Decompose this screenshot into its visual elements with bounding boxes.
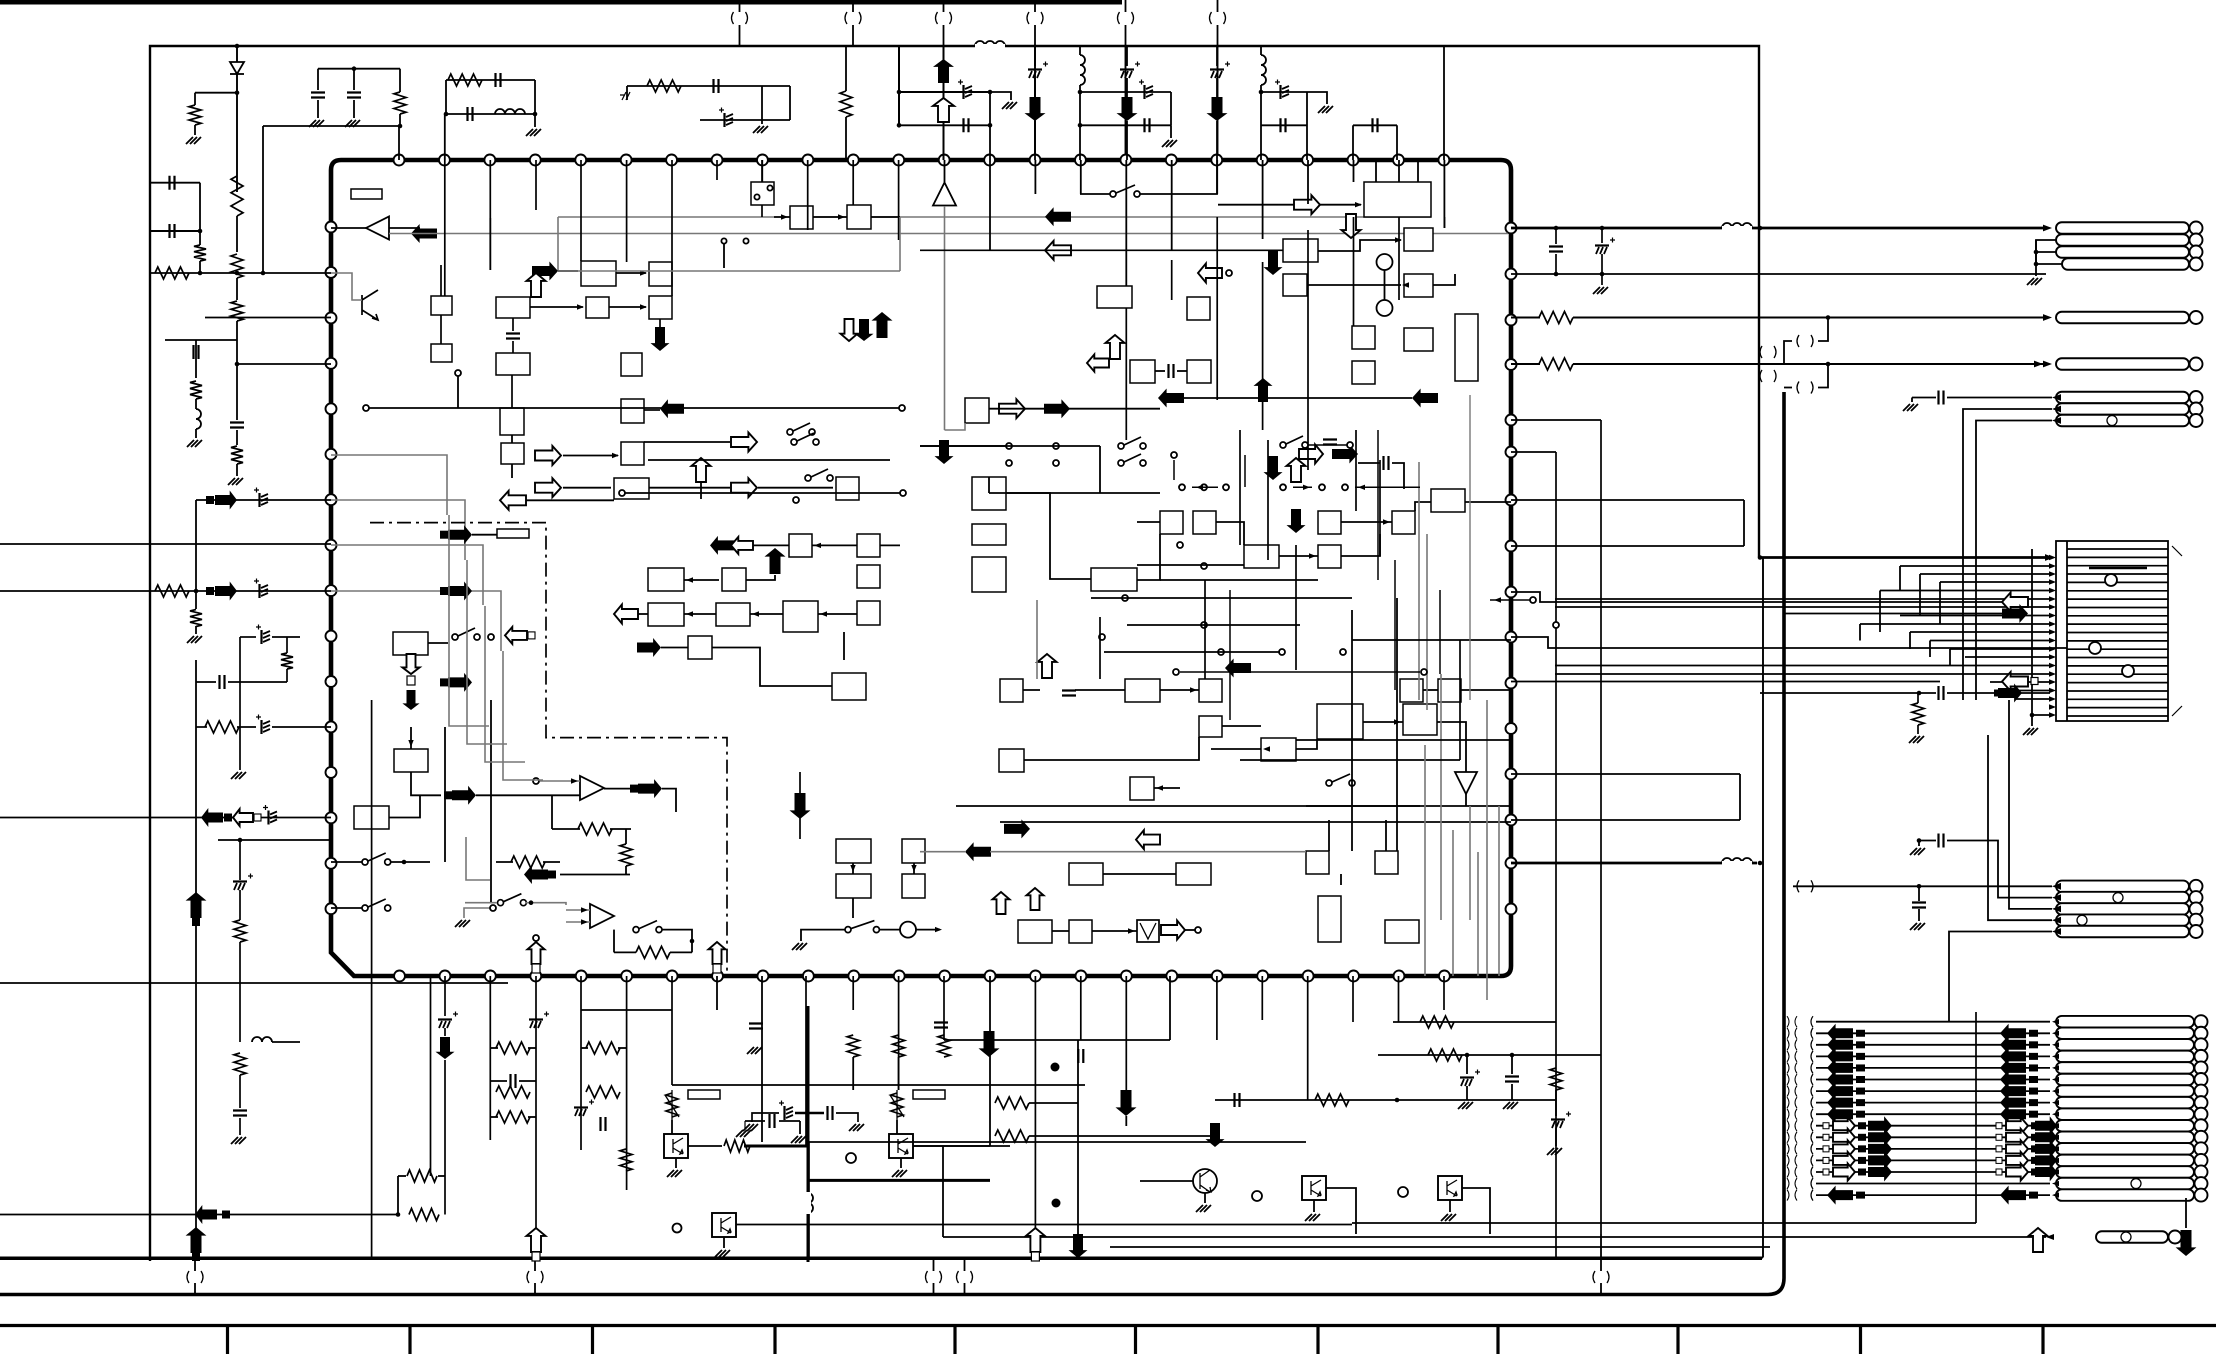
wire (317, 69, 319, 90)
harness wire (1816, 1102, 2050, 1104)
bundle bracket (1787, 1178, 1797, 1189)
top connector wire (852, 25, 854, 46)
capacitor (1939, 391, 1944, 405)
wire (399, 69, 401, 92)
IC pin (757, 971, 768, 982)
wire (1384, 270, 1386, 300)
connector block inner bar (2089, 567, 2147, 569)
top connector wire (852, 0, 854, 12)
IC pin (984, 155, 995, 166)
function block (1364, 182, 1431, 217)
wire (528, 1116, 536, 1118)
wire (1261, 124, 1307, 126)
resistor (234, 920, 246, 942)
ground (455, 920, 470, 927)
contact S43 (1173, 669, 1179, 675)
arrowhead A22 (2049, 621, 2056, 626)
IC pin (1506, 723, 1517, 734)
capacitor (1235, 1093, 1240, 1107)
wire (616, 272, 646, 274)
ground (753, 126, 768, 133)
signal arrow A132 (1087, 354, 1109, 371)
wire (684, 579, 719, 581)
IC pin (1257, 155, 1268, 166)
signal arrow A114 (841, 319, 858, 341)
ground (1162, 140, 1177, 147)
arrow tail box (1856, 1064, 1865, 1071)
wire (1024, 737, 1199, 760)
harness bracket (1811, 1132, 1813, 1143)
wire (758, 487, 833, 489)
signal wire (1511, 363, 2048, 365)
connector P11 (2056, 892, 2189, 904)
IC pin (326, 631, 337, 642)
capacitor (1279, 85, 1281, 99)
contact S35 (1053, 460, 1059, 466)
transistor Q3 (1193, 1169, 1217, 1193)
arrow tail sq (1823, 1146, 1829, 1152)
wire (239, 1118, 241, 1135)
wire (205, 317, 331, 319)
wire (942, 1146, 944, 1237)
signal arrow A97 (1207, 97, 1228, 121)
ground (1002, 102, 1017, 109)
ground (715, 1250, 730, 1257)
wire (489, 218, 491, 270)
junction N3 (2034, 262, 2039, 267)
wire (1140, 1180, 1193, 1182)
connector P10 (2056, 881, 2189, 893)
IC pin (893, 155, 904, 166)
function block (1438, 679, 1461, 702)
arrowhead A39 (2052, 1031, 2059, 1036)
signal arrow A77 (1868, 1128, 1892, 1147)
wire (1398, 976, 1400, 1022)
IC pin (712, 971, 723, 982)
ground (231, 1137, 246, 1144)
wire (1307, 284, 1401, 286)
capacitor (233, 880, 247, 882)
capacitor (170, 224, 175, 238)
signal arrow A129 (1412, 389, 1438, 408)
signal arrow A173 (524, 865, 548, 884)
wire (472, 534, 497, 536)
wire (1222, 725, 1261, 727)
arrow mid box (1858, 1122, 1866, 1129)
wire (799, 818, 801, 839)
wire (286, 669, 288, 682)
pin drop wire (626, 160, 628, 262)
function block (1392, 511, 1415, 534)
wire (933, 1259, 935, 1271)
junction N17 (1078, 123, 1083, 128)
wire (944, 1039, 1170, 1041)
wire (1260, 85, 1262, 160)
signal arrow A82 (2006, 1140, 2028, 1157)
wire (236, 364, 238, 420)
arrowhead A51 (2052, 1169, 2059, 1174)
arrow mid box (2031, 1145, 2039, 1152)
function block (1000, 679, 1023, 702)
arrow tail sq (1823, 1123, 1829, 1129)
arrowhead A32 (2049, 704, 2056, 709)
IC pin (1506, 587, 1517, 598)
wire (540, 780, 580, 782)
wire (1743, 500, 1745, 546)
wire (1034, 46, 1036, 66)
inductor (808, 1193, 813, 1213)
junction dot (1051, 1063, 1060, 1072)
wire (1739, 774, 1741, 820)
wire (625, 866, 627, 875)
supply drop wire (943, 46, 945, 160)
ground (1903, 404, 1918, 411)
wire (1462, 1188, 1490, 1234)
logic block (789, 534, 812, 557)
bus wire (1511, 862, 1757, 865)
connector pin (2056, 1143, 2194, 1155)
wire (1917, 725, 1919, 734)
drop wire (1307, 230, 1309, 470)
feeder wire (1900, 615, 2050, 617)
pin drop wire (898, 160, 900, 240)
arrow tail box (1856, 1030, 1865, 1037)
wire (1029, 1135, 1215, 1137)
pin drop wire (807, 160, 809, 230)
connector pin (2056, 1062, 2194, 1074)
wire (1184, 397, 1412, 399)
arrowhead A26 (2049, 654, 2056, 659)
bundle bracket (1787, 1155, 1797, 1166)
logic block (716, 603, 750, 626)
harness wire (1816, 1055, 2050, 1057)
wire (672, 1084, 1085, 1086)
arrow mid box (2031, 1168, 2039, 1175)
transistor Q1 (664, 1134, 688, 1158)
long wire (1469, 806, 1471, 920)
connector pin (2056, 1166, 2194, 1178)
wire (194, 93, 196, 105)
capacitor (934, 1023, 948, 1028)
IC pin (1506, 447, 1517, 458)
long wire (430, 976, 432, 1176)
wire (263, 125, 400, 127)
long wire (1600, 420, 1602, 1234)
function block (1283, 239, 1318, 262)
wire (1216, 976, 1218, 1040)
ground (667, 1170, 682, 1177)
resistor (620, 1149, 632, 1171)
bus inductor mask (1722, 226, 1752, 230)
wire (625, 829, 627, 844)
wire (1918, 886, 1920, 901)
signal arrow A156 (935, 440, 954, 464)
connector block pin line (2067, 648, 2168, 650)
resistor (407, 1170, 437, 1182)
IC pin (1506, 815, 1517, 826)
wire (813, 216, 847, 218)
connector P14 (2056, 926, 2189, 938)
wire (557, 217, 559, 271)
wire (196, 726, 207, 728)
junction (396, 1212, 401, 1217)
logic block (790, 206, 813, 229)
wire (662, 789, 676, 812)
label box (497, 529, 529, 538)
top inline connector (1027, 12, 1029, 24)
feeder wire (1939, 582, 1941, 624)
logic block (832, 673, 866, 700)
wire (899, 91, 990, 93)
array bus (1975, 1012, 1977, 1223)
label box (913, 1090, 945, 1099)
arrowhead A11 (2052, 906, 2061, 913)
resistor (194, 245, 206, 261)
wire (801, 930, 845, 941)
IC pin (1393, 155, 1404, 166)
contact S12 (1177, 542, 1183, 548)
IC U1 outline (331, 160, 1511, 976)
wire (700, 119, 790, 121)
arrowhead A171 (581, 907, 588, 912)
small box (713, 964, 721, 973)
wire (761, 160, 763, 182)
arrow mid box (1858, 1157, 1866, 1164)
warr sq (528, 632, 535, 639)
contact S30 (899, 405, 905, 411)
logic block (836, 839, 871, 863)
feeder wire (1920, 573, 2050, 575)
connector block pin line (2067, 673, 2168, 675)
transistor Q2 (889, 1134, 913, 1158)
wire (649, 487, 730, 489)
arrowhead A7 (2052, 417, 2061, 424)
wire (535, 976, 537, 1259)
IC pin (326, 358, 337, 369)
wire (1555, 228, 1557, 244)
ground (1458, 1102, 1473, 1109)
connector block pin column (2066, 541, 2068, 721)
wire (272, 636, 300, 638)
wire (671, 976, 673, 1085)
signal arrow A158 (1287, 509, 1306, 533)
connector pin (2056, 1132, 2194, 1144)
ind mask3 (806, 1192, 811, 1214)
wire (195, 340, 197, 378)
connector block pin line (2067, 640, 2168, 642)
arrowhead A27 (2049, 663, 2056, 668)
wire (1511, 419, 1601, 421)
contact S40 (1319, 484, 1325, 490)
wire (2031, 715, 2033, 726)
wire (446, 113, 535, 115)
stub wire (1244, 455, 1246, 487)
wire (526, 903, 566, 905)
wire (1006, 493, 1091, 579)
bundle wire (485, 606, 525, 762)
signal arrow A121 (1264, 251, 1283, 275)
res mask (1540, 312, 1573, 323)
IC pin (326, 903, 337, 914)
wire (933, 1283, 935, 1295)
signal arrow A100 (233, 809, 253, 826)
signal arrow A56 (1827, 1035, 1853, 1054)
stub wire (1173, 460, 1175, 480)
signal arrow A198 (2029, 1228, 2048, 1252)
IC pin (530, 155, 541, 166)
wire (1461, 689, 1511, 691)
resistor (189, 105, 201, 125)
long input wire (0, 817, 331, 819)
wire (751, 1145, 806, 1147)
arrowhead A17 (2049, 579, 2056, 584)
capacitor (1939, 834, 1944, 848)
wire (880, 544, 900, 546)
capacitor (258, 493, 260, 507)
pin drop wire (716, 160, 718, 180)
wire (638, 613, 648, 615)
wire (236, 278, 238, 300)
pin drop wire (1307, 160, 1309, 204)
wire (444, 976, 446, 1016)
capacitor (347, 93, 361, 98)
wire (194, 1259, 196, 1271)
long input wire (0, 543, 331, 545)
connector pin (2056, 1097, 2194, 1109)
arrowhead A49 (2052, 1146, 2059, 1151)
wire (496, 861, 513, 863)
wire (444, 1060, 446, 1215)
wire (662, 930, 692, 953)
wire (1240, 759, 1460, 761)
signal arrow A61 (2000, 1058, 2026, 1077)
wire (920, 445, 1006, 447)
harness wire (1816, 1171, 2050, 1173)
power trace (744, 1145, 808, 1148)
connector block pin line (2067, 556, 2168, 558)
function block (1404, 228, 1433, 251)
wire (659, 319, 661, 329)
contact S37 (1201, 484, 1207, 490)
inline connector (527, 1271, 529, 1283)
wire (534, 80, 536, 114)
harness wire (1816, 1194, 2050, 1196)
connector pin (2056, 1028, 2194, 1040)
signal arrow A34 (2002, 593, 2028, 612)
wire (805, 976, 807, 1146)
wire (1385, 820, 1387, 851)
signal wire (1947, 692, 2050, 694)
junction N34 (1600, 272, 1605, 277)
signal arrow A145 (505, 627, 527, 644)
logic block (648, 603, 684, 626)
contact S15 (1201, 622, 1207, 628)
wire (399, 114, 401, 126)
capacitor (258, 584, 260, 598)
arrowhead A170 (571, 778, 578, 783)
capacitor (230, 423, 244, 428)
contact S47 (1347, 442, 1353, 448)
arrowhead A150 (814, 543, 821, 548)
junction N21 (235, 271, 240, 276)
transistor Q4 (1302, 1176, 1326, 1200)
bus wire (558, 270, 900, 272)
arrow tail sq (1823, 1169, 1829, 1175)
signal arrow A98 (215, 582, 237, 601)
wire (1155, 370, 1165, 372)
top inline connector (936, 12, 938, 24)
junction N1 (1758, 226, 1763, 231)
wire (1125, 1116, 1127, 1126)
long wire (648, 459, 890, 461)
wire (262, 126, 264, 273)
signal arrow A135 (535, 478, 561, 497)
wire (1917, 693, 1919, 703)
wire (534, 114, 536, 127)
logic block (393, 632, 428, 655)
junction N9 (1917, 838, 1922, 843)
connector block corner mark (2172, 546, 2182, 716)
connector P4 (2062, 258, 2189, 270)
logic block (836, 874, 871, 898)
power trace (795, 1112, 824, 1115)
wire (353, 69, 355, 90)
wire (196, 681, 216, 683)
switch (362, 859, 368, 865)
signal arrow A184 (993, 892, 1010, 914)
wire (444, 114, 446, 160)
junction dot (1052, 1199, 1061, 1208)
wire (239, 727, 241, 770)
wire (558, 270, 578, 272)
wire (165, 339, 237, 341)
resistor (281, 653, 293, 669)
connector pin (2056, 1120, 2194, 1132)
arrowhead A153 (752, 611, 759, 616)
drop wire (1262, 262, 1264, 430)
long wire (150, 272, 331, 274)
resistor (496, 1111, 530, 1123)
crystal label (351, 189, 382, 199)
wire (1260, 46, 1262, 55)
wire (1355, 430, 1357, 511)
wire (1104, 651, 1280, 653)
arrow tail box (2029, 1053, 2038, 1060)
logic block (496, 297, 530, 318)
diode D1 (230, 62, 244, 74)
wire (1099, 446, 1101, 493)
wire (566, 909, 590, 911)
wire (331, 227, 366, 229)
IC pin (803, 971, 814, 982)
logic block (836, 477, 859, 500)
link wire (1818, 364, 1828, 388)
wire (604, 788, 630, 790)
ground (187, 440, 202, 447)
arrow tail box (1856, 1192, 1865, 1199)
drop wire (1377, 430, 1379, 580)
IC pin (1121, 971, 1132, 982)
wire (920, 445, 1100, 447)
wire (1080, 124, 1171, 126)
feeder wire (1879, 591, 1881, 633)
wire (956, 805, 1511, 807)
logic block (581, 261, 616, 286)
wire (1126, 121, 1128, 160)
function block (1455, 314, 1478, 381)
wire (240, 636, 256, 638)
wire (613, 930, 615, 953)
